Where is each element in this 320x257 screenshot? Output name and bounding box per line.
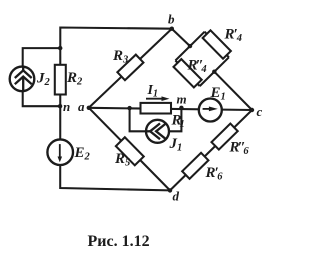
svg-text:R3: R3 bbox=[112, 48, 128, 66]
svg-text:R1: R1 bbox=[171, 113, 185, 131]
svg-text:R′4: R′4 bbox=[224, 27, 242, 45]
svg-text:b: b bbox=[168, 12, 175, 27]
svg-text:R″6: R″6 bbox=[229, 140, 250, 158]
svg-text:E1: E1 bbox=[210, 85, 226, 103]
svg-text:J1: J1 bbox=[169, 136, 183, 154]
svg-text:R′6: R′6 bbox=[205, 165, 224, 183]
svg-text:c: c bbox=[257, 104, 263, 119]
svg-text:m: m bbox=[177, 92, 187, 107]
svg-text:J2: J2 bbox=[36, 71, 51, 89]
svg-text:a: a bbox=[78, 99, 85, 114]
svg-text:d: d bbox=[173, 189, 180, 204]
svg-text:I1: I1 bbox=[147, 83, 158, 100]
svg-text:R″4: R″4 bbox=[187, 58, 207, 76]
svg-text:E2: E2 bbox=[74, 145, 91, 163]
svg-text:n: n bbox=[63, 99, 70, 114]
svg-text:Рис. 1.12: Рис. 1.12 bbox=[88, 233, 150, 250]
svg-text:R2: R2 bbox=[66, 70, 83, 88]
